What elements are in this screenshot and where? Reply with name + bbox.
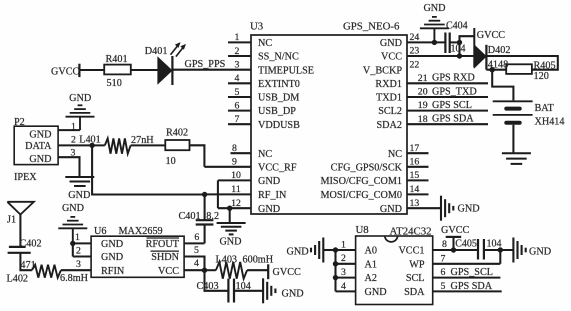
svg-text:9: 9 xyxy=(232,157,237,168)
svg-text:RXD1: RXD1 xyxy=(375,79,402,90)
svg-text:GPS SCL: GPS SCL xyxy=(432,100,472,111)
svg-text:EXTINT0: EXTINT0 xyxy=(258,79,300,90)
svg-text:24: 24 xyxy=(410,32,420,43)
svg-text:10: 10 xyxy=(166,156,176,167)
svg-text:SS_N/NC: SS_N/NC xyxy=(258,52,299,63)
svg-text:22: 22 xyxy=(410,59,420,70)
svg-text:6: 6 xyxy=(194,232,199,243)
svg-text:USB_DM: USB_DM xyxy=(258,93,299,104)
svg-text:SCL: SCL xyxy=(406,273,425,284)
svg-text:TXD1: TXD1 xyxy=(376,93,402,104)
svg-text:21: 21 xyxy=(418,73,428,84)
svg-text:1: 1 xyxy=(341,239,346,250)
svg-text:GPS SDA: GPS SDA xyxy=(451,281,493,292)
svg-text:DATA: DATA xyxy=(25,141,52,152)
svg-text:10: 10 xyxy=(231,170,241,181)
svg-text:SDA: SDA xyxy=(404,287,425,298)
svg-text:GVCC: GVCC xyxy=(51,66,80,77)
svg-text:J1: J1 xyxy=(7,215,16,226)
svg-text:23: 23 xyxy=(410,46,420,57)
svg-text:GND: GND xyxy=(29,130,51,141)
svg-text:1: 1 xyxy=(235,32,240,43)
svg-text:4: 4 xyxy=(194,258,199,269)
svg-text:C404: C404 xyxy=(446,20,468,31)
svg-text:A1: A1 xyxy=(365,259,377,270)
svg-text:IPEX: IPEX xyxy=(14,172,37,183)
svg-text:GVCC: GVCC xyxy=(477,30,506,41)
svg-text:D401: D401 xyxy=(145,46,168,57)
svg-text:17: 17 xyxy=(410,143,420,154)
svg-text:GND: GND xyxy=(458,204,480,215)
svg-text:3: 3 xyxy=(76,259,81,270)
svg-text:GPS_TXD: GPS_TXD xyxy=(432,86,477,97)
svg-text:VCC_RF: VCC_RF xyxy=(258,162,297,173)
svg-text:GND: GND xyxy=(365,287,387,298)
svg-text:C405: C405 xyxy=(455,239,477,250)
svg-text:GND: GND xyxy=(69,93,91,104)
svg-text:GND: GND xyxy=(219,237,241,248)
svg-text:2: 2 xyxy=(235,46,240,57)
svg-text:7: 7 xyxy=(441,254,446,265)
svg-text:U3: U3 xyxy=(250,21,263,33)
svg-text:1: 1 xyxy=(75,232,80,243)
svg-text:510: 510 xyxy=(107,78,122,89)
svg-text:20: 20 xyxy=(418,87,428,98)
svg-text:12: 12 xyxy=(231,198,241,209)
svg-text:GPS SDA: GPS SDA xyxy=(432,114,474,125)
svg-text:GPS RXD: GPS RXD xyxy=(432,73,475,84)
svg-text:GVCC: GVCC xyxy=(441,225,470,236)
svg-text:C402: C402 xyxy=(20,238,42,249)
svg-text:3: 3 xyxy=(341,267,346,278)
svg-text:RFOUT: RFOUT xyxy=(146,239,180,250)
svg-text:A0: A0 xyxy=(365,246,377,257)
svg-text:L403: L403 xyxy=(216,254,238,265)
svg-text:SDA2: SDA2 xyxy=(377,120,402,131)
svg-text:USB_DP: USB_DP xyxy=(258,106,296,117)
svg-text:C401: C401 xyxy=(179,211,201,222)
svg-text:15: 15 xyxy=(410,170,420,181)
svg-text:GND: GND xyxy=(101,252,123,263)
svg-text:WP: WP xyxy=(409,259,425,270)
svg-text:19: 19 xyxy=(418,100,428,111)
svg-text:SCL2: SCL2 xyxy=(378,106,402,117)
svg-text:D402: D402 xyxy=(488,45,511,56)
svg-text:2: 2 xyxy=(341,253,346,264)
svg-text:R401: R401 xyxy=(106,54,128,65)
svg-text:U8: U8 xyxy=(356,224,369,236)
svg-text:GND: GND xyxy=(101,239,123,250)
svg-text:A2: A2 xyxy=(365,273,377,284)
svg-text:6: 6 xyxy=(441,267,446,278)
svg-text:8.2: 8.2 xyxy=(206,211,219,222)
svg-text:1: 1 xyxy=(71,121,76,132)
svg-text:2: 2 xyxy=(71,135,76,146)
svg-text:104: 104 xyxy=(487,239,502,250)
svg-text:CFG_GPS0/SCK: CFG_GPS0/SCK xyxy=(331,162,403,173)
svg-text:GND: GND xyxy=(287,247,309,258)
svg-text:14: 14 xyxy=(410,184,420,195)
svg-text:SHDN: SHDN xyxy=(151,252,179,263)
svg-text:MOSI/CFG_COM0: MOSI/CFG_COM0 xyxy=(320,190,402,201)
svg-text:GND: GND xyxy=(380,38,402,49)
svg-text:TIMEPULSE: TIMEPULSE xyxy=(258,65,314,76)
svg-text:GPS_SCL: GPS_SCL xyxy=(451,267,493,278)
svg-text:5: 5 xyxy=(194,245,199,256)
svg-text:8: 8 xyxy=(442,239,447,250)
svg-text:GND: GND xyxy=(380,204,402,215)
svg-text:8: 8 xyxy=(232,143,237,154)
svg-text:GND: GND xyxy=(282,288,304,299)
svg-text:VCC: VCC xyxy=(158,266,179,277)
svg-text:L402: L402 xyxy=(7,274,29,285)
svg-text:6.8mH: 6.8mH xyxy=(60,273,89,284)
svg-text:GND: GND xyxy=(258,204,280,215)
svg-text:600mH: 600mH xyxy=(243,254,274,265)
svg-text:5: 5 xyxy=(441,281,446,292)
svg-text:R402: R402 xyxy=(166,128,188,139)
svg-text:GPS_PPS: GPS_PPS xyxy=(185,59,226,70)
svg-text:GND: GND xyxy=(29,154,51,165)
svg-text:VCC: VCC xyxy=(381,52,402,63)
svg-text:R405: R405 xyxy=(534,60,556,71)
svg-text:C403: C403 xyxy=(197,281,219,292)
svg-text:GND: GND xyxy=(529,247,551,258)
svg-text:MISO/CFG_COM1: MISO/CFG_COM1 xyxy=(320,176,402,187)
svg-text:NC: NC xyxy=(258,149,272,160)
svg-text:GND: GND xyxy=(423,3,445,14)
svg-text:18: 18 xyxy=(418,114,428,125)
svg-text:GND: GND xyxy=(68,190,90,201)
svg-text:NC: NC xyxy=(388,149,402,160)
svg-text:104: 104 xyxy=(236,281,251,292)
svg-text:4: 4 xyxy=(341,281,346,292)
svg-text:16: 16 xyxy=(410,156,420,167)
svg-text:RF_IN: RF_IN xyxy=(258,190,287,201)
svg-text:5: 5 xyxy=(235,87,240,98)
svg-text:GND: GND xyxy=(258,176,280,187)
svg-text:6: 6 xyxy=(235,100,240,111)
svg-text:BAT: BAT xyxy=(535,103,555,114)
svg-text:104: 104 xyxy=(451,43,466,54)
svg-text:7: 7 xyxy=(235,114,240,125)
svg-text:V_BCKP: V_BCKP xyxy=(363,65,402,76)
svg-text:XH414: XH414 xyxy=(535,117,565,128)
svg-text:4: 4 xyxy=(235,73,240,84)
svg-text:VCC1: VCC1 xyxy=(398,246,424,257)
svg-text:GPS_NEO-6: GPS_NEO-6 xyxy=(343,21,400,33)
svg-text:2: 2 xyxy=(76,245,81,256)
svg-text:120: 120 xyxy=(534,71,549,82)
svg-text:RFIN: RFIN xyxy=(101,266,125,277)
svg-text:VDDUSB: VDDUSB xyxy=(258,120,300,131)
svg-text:11: 11 xyxy=(231,184,241,195)
svg-text:GVCC: GVCC xyxy=(273,267,302,278)
svg-text:NC: NC xyxy=(258,38,272,49)
svg-text:GND: GND xyxy=(62,203,84,214)
svg-text:13: 13 xyxy=(410,198,420,209)
